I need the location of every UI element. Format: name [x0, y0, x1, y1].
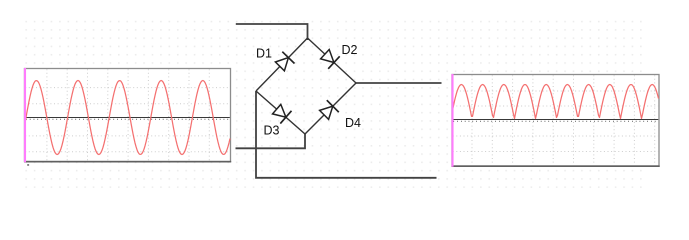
scope body	[25, 69, 231, 162]
scope body	[452, 75, 659, 167]
zero axis	[25, 117, 230, 119]
axis tick marks	[453, 120, 658, 122]
zero axis	[453, 119, 659, 121]
axis tick marks	[26, 118, 230, 120]
sine wave trace	[25, 81, 230, 155]
wire top AC input to bridge top	[236, 24, 308, 40]
svg-text:D3: D3	[264, 124, 280, 138]
wire bridge left vertex down and right (negative DC rail)	[256, 91, 437, 178]
stray mark below scope	[27, 164, 29, 166]
magenta left border	[24, 68, 26, 162]
diode D3	[273, 104, 292, 123]
svg-text:D4: D4	[345, 116, 361, 130]
rectified wave trace	[453, 85, 659, 119]
bridge diamond edge top-right	[308, 38, 357, 83]
bridge diamond edge left-top	[256, 38, 308, 91]
wire bridge bottom to left (AC input 2)	[236, 134, 306, 148]
bridge diamond edge left-bottom	[256, 91, 305, 134]
svg-text:D1: D1	[256, 47, 272, 61]
grid horizontal dashed lines	[25, 88, 230, 152]
left oscilloscope panel	[24, 68, 231, 166]
diode D4	[320, 100, 339, 119]
diode D2	[321, 50, 340, 69]
grid vertical dashed lines	[47, 69, 209, 161]
bridge diamond edge bottom-right	[305, 83, 356, 134]
svg-text:D2: D2	[342, 43, 358, 57]
grid vertical dashed lines	[472, 75, 655, 165]
magenta left border	[451, 74, 453, 167]
wire bridge right vertex to right scope (positive DC)	[356, 82, 442, 84]
right oscilloscope panel	[452, 74, 660, 167]
diode D1	[275, 52, 294, 71]
grid horizontal dashed lines	[453, 91, 659, 152]
